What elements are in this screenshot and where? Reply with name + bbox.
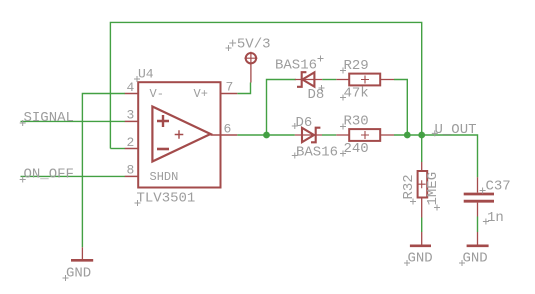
svg-text:GND: GND bbox=[66, 266, 91, 282]
svg-text:7: 7 bbox=[226, 80, 234, 95]
svg-text:+5V/3: +5V/3 bbox=[229, 37, 271, 53]
svg-text:R29: R29 bbox=[344, 58, 369, 74]
svg-text:C37: C37 bbox=[486, 179, 511, 195]
svg-text:U4: U4 bbox=[138, 67, 154, 82]
svg-text:V+: V+ bbox=[194, 87, 208, 101]
svg-text:R32: R32 bbox=[401, 174, 417, 199]
svg-text:SHDN: SHDN bbox=[150, 170, 179, 184]
svg-text:BAS16: BAS16 bbox=[275, 58, 317, 74]
svg-text:U_OUT: U_OUT bbox=[435, 122, 477, 138]
svg-text:TLV3501: TLV3501 bbox=[137, 191, 196, 207]
svg-text:1MEG: 1MEG bbox=[425, 172, 441, 206]
svg-text:4: 4 bbox=[127, 80, 135, 95]
svg-text:240: 240 bbox=[344, 141, 369, 157]
svg-text:BAS16: BAS16 bbox=[296, 145, 338, 161]
svg-text:GND: GND bbox=[463, 251, 488, 267]
svg-text:SIGNAL: SIGNAL bbox=[24, 110, 74, 126]
svg-text:2: 2 bbox=[127, 135, 135, 150]
svg-text:1n: 1n bbox=[487, 210, 504, 226]
svg-text:3: 3 bbox=[127, 108, 135, 123]
svg-text:47k: 47k bbox=[344, 86, 369, 102]
svg-text:8: 8 bbox=[127, 163, 135, 178]
svg-text:V-: V- bbox=[150, 87, 164, 101]
svg-text:GND: GND bbox=[408, 251, 433, 267]
svg-text:R30: R30 bbox=[344, 114, 369, 130]
svg-text:ON_OFF: ON_OFF bbox=[24, 166, 74, 182]
svg-text:D6: D6 bbox=[296, 115, 313, 131]
svg-text:6: 6 bbox=[224, 122, 232, 137]
